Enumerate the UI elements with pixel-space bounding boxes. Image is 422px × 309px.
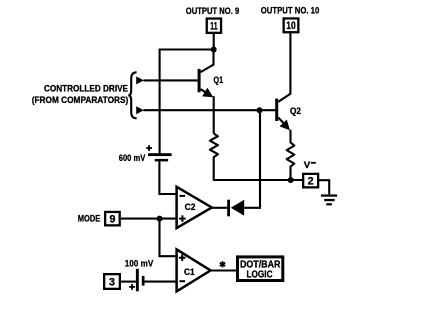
svg-text:11: 11 xyxy=(210,21,218,33)
svg-text:(FROM COMPARATORS): (FROM COMPARATORS) xyxy=(32,95,129,106)
svg-text:LOGIC: LOGIC xyxy=(247,270,273,281)
svg-text:OUTPUT NO. 10: OUTPUT NO. 10 xyxy=(261,6,320,17)
svg-text:V: V xyxy=(304,160,311,171)
svg-text:OUTPUT NO. 9: OUTPUT NO. 9 xyxy=(186,6,240,17)
svg-text:Q1: Q1 xyxy=(214,75,224,85)
svg-text:2: 2 xyxy=(308,176,314,188)
svg-text:CONTROLLED DRIVE: CONTROLLED DRIVE xyxy=(44,84,129,95)
svg-text:Q2: Q2 xyxy=(290,106,301,116)
svg-text:C1: C1 xyxy=(184,267,195,277)
svg-text:3: 3 xyxy=(109,276,115,288)
svg-text:600 mV: 600 mV xyxy=(119,153,146,164)
svg-text:100 mV: 100 mV xyxy=(125,258,154,269)
svg-text:MODE: MODE xyxy=(78,214,101,225)
svg-text:9: 9 xyxy=(110,214,116,226)
svg-text:10: 10 xyxy=(286,20,296,32)
svg-text:C2: C2 xyxy=(185,202,196,212)
